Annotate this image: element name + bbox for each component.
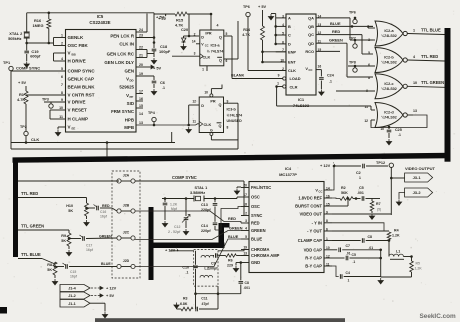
- svg-text:CS22402E: CS22402E: [89, 20, 110, 25]
- svg-text:Q: Q: [219, 36, 222, 40]
- svg-text:J3-1: J3-1: [413, 175, 422, 180]
- svg-text:4: 4: [61, 57, 63, 61]
- svg-text:8: 8: [368, 76, 370, 80]
- svg-text:11: 11: [59, 115, 63, 119]
- svg-text:LOAD: LOAD: [290, 76, 301, 81]
- svg-text:CLR: CLR: [290, 84, 298, 89]
- svg-text:IC3-a: IC3-a: [210, 44, 220, 48]
- svg-text:13: 13: [413, 109, 417, 113]
- svg-text:GREEN: GREEN: [99, 235, 112, 239]
- svg-text:IC2-b: IC2-b: [384, 56, 394, 60]
- svg-text:J2B: J2B: [123, 204, 130, 208]
- svg-text:4.7K: 4.7K: [242, 33, 250, 37]
- svg-text:C11: C11: [201, 297, 207, 301]
- svg-text:½74LS74: ½74LS74: [227, 114, 243, 118]
- svg-text:47pf: 47pf: [202, 302, 210, 306]
- svg-text:ENT: ENT: [288, 60, 296, 65]
- svg-text:IC2-c: IC2-c: [384, 82, 393, 86]
- svg-text:1: 1: [348, 279, 350, 283]
- svg-text:IC4: IC4: [285, 166, 292, 171]
- svg-text:C8: C8: [245, 281, 249, 285]
- svg-text:Q: Q: [219, 124, 222, 128]
- svg-text:OSC: OSC: [251, 204, 260, 209]
- svg-text:V: V: [68, 51, 71, 56]
- svg-text:1: 1: [277, 82, 279, 86]
- svg-text:10: 10: [413, 81, 417, 85]
- svg-text:RED: RED: [228, 217, 236, 221]
- svg-text:.001: .001: [244, 286, 251, 290]
- svg-text:CLK: CLK: [288, 68, 296, 73]
- svg-text:CC: CC: [205, 44, 209, 48]
- svg-text:GREEN: GREEN: [229, 227, 243, 231]
- svg-text:BLANK: BLANK: [231, 74, 245, 78]
- svg-text:BLUE: BLUE: [330, 21, 341, 26]
- svg-text:B: B: [288, 24, 291, 29]
- svg-text:TP6: TP6: [349, 11, 356, 15]
- svg-text:56K: 56K: [341, 191, 348, 195]
- svg-text:BB: BB: [72, 53, 76, 57]
- svg-text:CC: CC: [309, 68, 313, 72]
- svg-text:2: 2: [194, 33, 196, 37]
- svg-text:V: V: [68, 125, 71, 130]
- svg-text:VIDEO OUTPUT: VIDEO OUTPUT: [405, 166, 436, 171]
- svg-text:IC1: IC1: [298, 97, 305, 102]
- svg-text:12: 12: [364, 119, 368, 123]
- svg-text:GEN LCK RC: GEN LCK RC: [107, 52, 135, 57]
- svg-text:CC: CC: [319, 189, 323, 193]
- svg-text:+ 5V: + 5V: [153, 66, 162, 71]
- svg-text:MC1377P: MC1377P: [279, 172, 297, 177]
- svg-text:14: 14: [139, 112, 143, 116]
- svg-text:GEN LOK DLY: GEN LOK DLY: [104, 60, 134, 65]
- svg-text:14: 14: [192, 40, 196, 44]
- svg-text:STAL 1: STAL 1: [195, 186, 208, 190]
- svg-text:C9: C9: [211, 262, 216, 266]
- svg-text:1: 1: [359, 176, 361, 180]
- svg-text:BLUE: BLUE: [101, 262, 111, 266]
- svg-text:1MEG: 1MEG: [33, 23, 44, 28]
- svg-text:IC2-d: IC2-d: [384, 111, 394, 115]
- svg-text:SeekIC.com: SeekIC.com: [420, 313, 457, 320]
- svg-text:C7: C7: [346, 244, 351, 248]
- svg-text:C5: C5: [359, 186, 364, 190]
- svg-text:HPB: HPB: [125, 118, 134, 123]
- svg-text:+ 5V: + 5V: [106, 293, 115, 298]
- svg-text:TP2: TP2: [20, 125, 27, 129]
- svg-text:OSC: OSC: [251, 195, 260, 200]
- svg-text:10: 10: [380, 127, 384, 131]
- svg-text:6.8K: 6.8K: [180, 302, 188, 306]
- svg-text:5: 5: [226, 32, 228, 36]
- svg-text:5K: 5K: [47, 268, 52, 272]
- svg-text:16pf: 16pf: [100, 215, 108, 219]
- svg-text:3: 3: [245, 219, 247, 223]
- svg-text:5: 5: [368, 51, 370, 55]
- svg-text:100pF: 100pF: [159, 49, 171, 54]
- svg-text:COMP SYNC: COMP SYNC: [68, 69, 96, 74]
- svg-text:19: 19: [243, 246, 247, 250]
- svg-text:J1-1: J1-1: [68, 302, 76, 306]
- svg-text:1.2K: 1.2K: [170, 203, 178, 207]
- svg-text:TTL BLUE: TTL BLUE: [21, 252, 41, 257]
- svg-text:GENLK CAP: GENLK CAP: [68, 77, 95, 82]
- svg-text:C20: C20: [181, 27, 188, 32]
- svg-text:PP: PP: [130, 95, 134, 99]
- svg-text:R8: R8: [47, 263, 52, 267]
- svg-text:BLUE: BLUE: [228, 235, 239, 239]
- svg-text:ENP: ENP: [288, 49, 296, 54]
- svg-text:C13: C13: [201, 203, 208, 207]
- svg-text:L1: L1: [396, 250, 400, 254]
- svg-text:FRM SYNC: FRM SYNC: [111, 109, 135, 114]
- svg-text:C17: C17: [86, 244, 92, 248]
- svg-text:D: D: [288, 42, 291, 47]
- svg-text:6: 6: [61, 75, 63, 79]
- svg-text:RED: RED: [102, 204, 110, 208]
- svg-text:7: 7: [61, 83, 63, 87]
- svg-text:13: 13: [243, 252, 247, 256]
- svg-text:RED: RED: [251, 221, 260, 226]
- svg-text:IC3-b: IC3-b: [227, 108, 237, 112]
- svg-text:3.58MHz: 3.58MHz: [190, 191, 205, 195]
- svg-text:229: 229: [227, 264, 233, 268]
- svg-text:2: 2: [367, 25, 369, 29]
- svg-text:R5: R5: [416, 262, 420, 266]
- svg-text:+ 5V: + 5V: [158, 16, 167, 21]
- svg-text:QC: QC: [308, 32, 314, 37]
- svg-text:GEN: GEN: [124, 69, 134, 74]
- svg-text:C5: C5: [352, 253, 356, 257]
- svg-text:10: 10: [59, 106, 63, 110]
- svg-text:PAL/NTSC: PAL/NTSC: [251, 185, 271, 190]
- svg-text:¼74LS02: ¼74LS02: [381, 34, 397, 38]
- svg-text:5K: 5K: [61, 239, 66, 243]
- svg-text:GREEN: GREEN: [251, 228, 266, 233]
- svg-text:J1-2: J1-2: [68, 294, 76, 298]
- svg-text:1: 1: [61, 33, 63, 37]
- svg-text:D: D: [201, 36, 204, 40]
- svg-text:CLK: CLK: [204, 123, 212, 127]
- svg-text:TTL RED: TTL RED: [21, 191, 38, 196]
- svg-text:R6: R6: [228, 259, 233, 263]
- svg-text:J1-4: J1-4: [68, 287, 76, 291]
- svg-text:1.2K: 1.2K: [392, 234, 400, 238]
- svg-text:IC5: IC5: [97, 14, 104, 19]
- svg-text:¼74LS02: ¼74LS02: [381, 61, 397, 65]
- svg-text:18: 18: [243, 203, 247, 207]
- svg-text:Q: Q: [219, 59, 222, 63]
- svg-text:4: 4: [245, 227, 247, 231]
- svg-text:GREEN: GREEN: [329, 38, 343, 43]
- svg-text:20: 20: [243, 184, 247, 188]
- svg-text:220pf: 220pf: [201, 229, 211, 233]
- svg-text:R-Y CAP: R-Y CAP: [305, 256, 322, 261]
- svg-text:1.2K: 1.2K: [415, 267, 423, 271]
- svg-text:SID: SID: [127, 101, 134, 106]
- svg-text:16: 16: [318, 65, 322, 69]
- svg-text:J2A: J2A: [123, 174, 130, 178]
- svg-text:3: 3: [194, 52, 196, 56]
- svg-text:.1: .1: [353, 260, 356, 264]
- svg-text:RED: RED: [332, 29, 340, 34]
- svg-text:H10: H10: [66, 204, 73, 208]
- svg-text:¼74LS02: ¼74LS02: [381, 116, 397, 120]
- svg-text:16pf: 16pf: [86, 248, 94, 252]
- svg-text:CHROMA: CHROMA: [251, 247, 269, 252]
- svg-text:H DRIVE: H DRIVE: [68, 59, 86, 64]
- svg-text:½ 74LS74: ½ 74LS74: [207, 50, 224, 54]
- svg-text:GENLK: GENLK: [68, 35, 85, 40]
- svg-text:COMP SYNC: COMP SYNC: [16, 66, 40, 71]
- svg-text:QD: QD: [308, 41, 314, 46]
- svg-text:100pf: 100pf: [208, 267, 218, 271]
- svg-text:5: 5: [61, 67, 63, 71]
- svg-text:+ 12V: + 12V: [165, 248, 176, 253]
- svg-text:¼74LS02: ¼74LS02: [381, 87, 397, 91]
- svg-text:BEAM BLNK: BEAM BLNK: [68, 85, 96, 90]
- svg-text:VIDEO OUT: VIDEO OUT: [299, 212, 322, 217]
- svg-text:C15: C15: [70, 270, 76, 274]
- svg-text:DD: DD: [130, 79, 134, 83]
- svg-text:TTL GREEN: TTL GREEN: [21, 224, 44, 229]
- svg-text:V RESET: V RESET: [68, 108, 88, 113]
- svg-text:RCO: RCO: [305, 49, 314, 54]
- svg-text:B-Y CAP: B-Y CAP: [305, 264, 322, 269]
- svg-text:16pf: 16pf: [70, 275, 78, 279]
- svg-text:EE: EE: [72, 127, 76, 131]
- svg-text:QA: QA: [308, 16, 314, 21]
- svg-text:C25: C25: [395, 128, 402, 132]
- svg-text:+ 5V: + 5V: [18, 80, 27, 85]
- svg-text:C: C: [288, 33, 291, 38]
- svg-text:8: 8: [61, 91, 63, 95]
- svg-text:QB: QB: [308, 24, 314, 29]
- svg-text:H CLAMP: H CLAMP: [68, 117, 89, 122]
- svg-text:TP6: TP6: [243, 5, 250, 9]
- svg-text:6: 6: [226, 59, 228, 63]
- svg-text:C10: C10: [182, 266, 189, 270]
- svg-text:- Y OUT: - Y OUT: [307, 229, 322, 234]
- svg-text:+ 12V: + 12V: [320, 163, 331, 168]
- svg-text:A: A: [288, 16, 291, 21]
- svg-text:11: 11: [193, 120, 197, 124]
- svg-text:C24: C24: [327, 74, 335, 78]
- svg-text:CLK: CLK: [31, 137, 39, 142]
- svg-text:.001: .001: [357, 191, 364, 195]
- svg-text:PEN LCK R: PEN LCK R: [110, 34, 134, 39]
- svg-text:11: 11: [365, 105, 369, 109]
- svg-text:TP1: TP1: [3, 60, 11, 65]
- svg-text:- Y IN: - Y IN: [312, 220, 322, 225]
- svg-text:2 - 52pf: 2 - 52pf: [168, 230, 181, 234]
- svg-text:(5): (5): [377, 208, 381, 212]
- svg-text:74LS193: 74LS193: [293, 103, 310, 108]
- svg-text:Q: Q: [219, 103, 222, 107]
- svg-text:C6: C6: [160, 80, 166, 85]
- svg-text:TTL GREEN: TTL GREEN: [421, 80, 444, 85]
- svg-text:TP8: TP8: [349, 61, 356, 65]
- svg-text:.1: .1: [398, 133, 401, 137]
- svg-text:529625: 529625: [119, 85, 134, 90]
- svg-text:.01: .01: [346, 252, 351, 256]
- svg-text:9: 9: [278, 74, 280, 78]
- svg-text:C8: C8: [368, 235, 373, 239]
- svg-text:+ 12V: + 12V: [106, 286, 117, 291]
- svg-text:R9: R9: [61, 234, 66, 238]
- svg-text:VDD CAP: VDD CAP: [304, 247, 323, 252]
- svg-text:D: D: [201, 104, 204, 108]
- svg-text:J3-2: J3-2: [413, 190, 422, 195]
- svg-text:17: 17: [243, 193, 247, 197]
- svg-text:COMP SYNC: COMP SYNC: [172, 175, 197, 180]
- svg-text:1: 1: [202, 68, 204, 72]
- svg-text:TTL BLUE: TTL BLUE: [421, 27, 441, 32]
- svg-text:+ 5V: + 5V: [258, 4, 267, 9]
- svg-text:CHROMA AMP: CHROMA AMP: [251, 253, 280, 258]
- svg-text:R14: R14: [243, 28, 251, 32]
- svg-text:1.8VDC REF: 1.8VDC REF: [298, 196, 322, 201]
- svg-text:IC2-a: IC2-a: [384, 29, 394, 33]
- svg-text:C14: C14: [201, 224, 209, 228]
- svg-text:TP3: TP3: [42, 98, 49, 102]
- svg-text:3: 3: [368, 38, 370, 42]
- svg-text:SYNC: SYNC: [251, 213, 262, 218]
- svg-text:UNUSED: UNUSED: [227, 119, 243, 123]
- svg-text:IPR: IPR: [205, 32, 211, 36]
- svg-text:V CNTR RST: V CNTR RST: [68, 93, 95, 98]
- svg-text:CLAMP CAP: CLAMP CAP: [298, 238, 323, 243]
- svg-text:R4: R4: [394, 229, 399, 233]
- svg-text:BURST CONT: BURST CONT: [295, 204, 322, 209]
- svg-text:12: 12: [192, 100, 196, 104]
- svg-text:C4: C4: [346, 271, 350, 275]
- svg-text:MPB: MPB: [124, 125, 134, 130]
- svg-text:TP12: TP12: [376, 161, 385, 165]
- svg-text:C16: C16: [100, 210, 106, 214]
- svg-text:GND: GND: [251, 260, 260, 265]
- svg-text:1: 1: [413, 28, 415, 32]
- svg-text:C12: C12: [174, 225, 180, 229]
- svg-text:505kHz: 505kHz: [8, 36, 21, 41]
- svg-text:PR: PR: [210, 100, 216, 104]
- svg-text:C2: C2: [356, 171, 361, 175]
- svg-text:TP4: TP4: [148, 111, 156, 115]
- svg-text:G: G: [210, 129, 213, 133]
- svg-text:R7: R7: [376, 202, 381, 206]
- svg-text:BLUE: BLUE: [251, 237, 262, 242]
- svg-text:10: 10: [204, 91, 208, 95]
- svg-text:TTL RED: TTL RED: [421, 54, 438, 59]
- svg-text:9: 9: [61, 98, 63, 102]
- svg-text:4.7K: 4.7K: [17, 97, 25, 102]
- svg-text:8: 8: [227, 126, 229, 130]
- svg-text:5K: 5K: [68, 209, 73, 213]
- svg-text:CLK IN: CLK IN: [119, 42, 134, 47]
- svg-text:4: 4: [217, 24, 219, 28]
- svg-text:.1: .1: [186, 271, 189, 275]
- svg-text:Mpf: Mpf: [171, 207, 178, 211]
- svg-text:OSC FBK: OSC FBK: [68, 43, 89, 48]
- svg-text:R2: R2: [341, 186, 346, 190]
- svg-text:R3: R3: [183, 297, 188, 301]
- svg-text:600pf: 600pf: [30, 54, 41, 59]
- svg-text:V DRIVE: V DRIVE: [68, 100, 86, 105]
- svg-text:5: 5: [245, 235, 247, 239]
- svg-text:J2D: J2D: [123, 259, 130, 263]
- svg-text:2: 2: [61, 41, 63, 45]
- svg-text:.1: .1: [329, 80, 332, 84]
- svg-text:.1: .1: [162, 86, 165, 90]
- svg-text:2: 2: [245, 212, 247, 216]
- svg-text:J2C: J2C: [123, 231, 130, 235]
